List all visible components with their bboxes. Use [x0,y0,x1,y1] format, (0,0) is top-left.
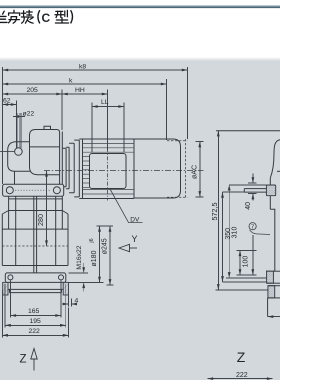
svg-text:Z: Z [20,354,27,366]
plate bolt hole left [6,187,13,194]
svg-text:195: 195 [30,318,42,325]
dim k line [3,83,167,85]
flange rim tab right [63,282,68,295]
svg-text:k8: k8 [79,64,86,71]
dim 4 [63,303,69,305]
svg-text:C: C [42,11,51,25]
tick 572,5 bottom [216,289,269,291]
rotated labels right view [210,202,252,267]
flange spigot [8,289,63,292]
right view housing side [269,178,271,209]
column horizontal joints [9,210,63,212]
column section verticals [8,196,10,229]
svg-text:øAC: øAC [191,165,198,179]
gray drawing background [0,61,280,380]
dim texts top [3,64,109,118]
flange diameter dims [69,226,114,292]
extension line k8 x187.5 [187,67,189,139]
gear block rib line [30,146,60,148]
white header background [0,0,280,57]
tick 310 bottom [226,277,267,279]
tick 40 top [248,182,257,184]
svg-text:165: 165 [28,308,40,315]
tick plate top ext [69,272,89,274]
extension line k x166.5 [166,79,168,140]
dim 310 [228,185,230,278]
extension lines LL [91,103,93,153]
dim k8 line [3,69,188,71]
housing left lower edge [14,171,16,184]
svg-text:40: 40 [245,202,252,210]
gear face inner line [61,132,63,197]
svg-text:280: 280 [36,214,45,226]
dim 572,5 [217,131,219,290]
svg-text:k: k [69,78,73,85]
svg-text:310: 310 [231,227,238,239]
dim 280 [46,171,48,246]
tick o245 bottom [107,284,114,286]
hole centerline stub [0,151,14,153]
dim 40 [252,174,254,183]
right view box bottom stub [277,170,280,172]
fins [83,143,135,194]
cable gland body hatched [266,185,275,196]
dim stub at shaft [268,316,280,318]
dim 205 line [3,93,63,95]
shaft bore verticals [33,196,35,273]
svg-text:62: 62 [3,98,11,105]
svg-text:572,5: 572,5 [210,203,219,221]
svg-text:HH: HH [75,87,85,94]
svg-text:j6: j6 [89,238,95,243]
svg-text:100: 100 [242,256,249,268]
right view motor arc [270,140,280,178]
svg-text:Z: Z [237,349,246,365]
dim 350 [222,192,224,282]
callout 7 circle [249,223,256,230]
title glyph 安 [8,10,19,23]
dim M16x22 lower seg [83,282,85,291]
svg-text:M16x22: M16x22 [76,245,83,269]
svg-text:205: 205 [27,87,39,94]
svg-text:DV: DV [130,217,140,224]
adapter ring 2 [66,147,69,189]
right view flange top face [266,270,280,272]
bottom extension lines [9,281,11,318]
plate bolt hole right [53,187,60,194]
svg-text:222: 222 [236,372,248,379]
dim 222 right view [208,378,273,380]
plate joint dotted [15,189,51,191]
flange section lines [267,282,280,284]
column wide section [1,214,3,266]
dim oAC [196,142,204,197]
svg-text:LL: LL [101,99,109,106]
view arrow Y [119,244,137,251]
tick plate bottom ext [69,281,104,283]
chamfers [2,211,8,215]
fin block left edge [79,139,82,199]
extension line x107.5 [107,90,109,151]
terminal box [90,154,127,189]
tick 310 top [229,184,266,186]
column gasket dashed joint [2,245,68,247]
adapter ring 1 [62,148,66,187]
filler plug [44,126,51,129]
fan cowl hidden lines [167,139,187,199]
adapter ring 4 [74,140,79,197]
dim M16x22 upper seg [83,263,85,273]
tick 40 bottom [248,193,257,195]
title glyph 兰 (clipped) [0,11,7,22]
right view dimensions [208,131,273,379]
motor axis centerline [44,170,204,172]
dim 222 [2,334,68,336]
fin block outline [83,139,135,199]
tick 100 top [236,249,256,251]
dim 165 [10,315,61,317]
right view top line [216,130,280,132]
flange section block upper [267,271,274,283]
svg-text:Y: Y [132,234,138,244]
output flange plate [5,273,66,283]
flange section block lower [268,286,275,298]
title （ [38,10,40,23]
svg-text:ø245: ø245 [101,238,108,254]
shaft line below flange [267,298,269,317]
soft header/drawing transition [0,57,280,61]
dim 195 [5,324,66,326]
housing right step [30,159,60,175]
svg-text:222: 222 [29,328,41,335]
callout 7 leader [250,230,271,235]
title glyph 装 [21,10,33,23]
title glyph 型 [55,10,69,23]
svg-text:4: 4 [75,298,79,305]
tick 350 bottom [223,281,268,283]
terminal box center dashed vertical [107,148,109,201]
housing left profile [8,142,30,171]
tick 350 top [223,191,245,193]
header light rule [0,5,280,7]
svg-text:7: 7 [251,225,254,231]
view arrow Z left [31,349,37,371]
flange bolt hole left [8,275,13,280]
flange rim tab left [3,282,8,295]
adapter ring 3 [69,143,74,193]
upper bearing plate [3,184,64,196]
extension line x62 [61,90,63,131]
dim o245 line [109,226,111,285]
svg-text:ø22: ø22 [23,111,35,118]
flange bolt hole right [59,275,64,280]
DV leader [110,189,143,223]
gear block outline [30,130,60,197]
motor body [134,139,181,198]
header dark teal rule [0,6,280,8]
tick 100 bottom [236,274,256,276]
bottom dims [2,281,77,338]
hole bore lines [15,101,17,149]
shaft pos dim line [252,235,254,275]
extension line x2.5 [2,67,4,184]
tick diameter top [97,225,114,227]
dim LL line [92,106,124,108]
dim o180 line [99,226,101,282]
dim HH line [62,93,108,95]
svg-text:ø180: ø180 [91,250,98,266]
dim 100 [239,250,241,275]
right view housing step [270,209,275,271]
leader o22 [13,116,25,118]
dim 62 line [3,104,17,106]
cable gland tube [244,189,266,193]
hole o22 [15,148,23,156]
title ） [71,10,73,23]
